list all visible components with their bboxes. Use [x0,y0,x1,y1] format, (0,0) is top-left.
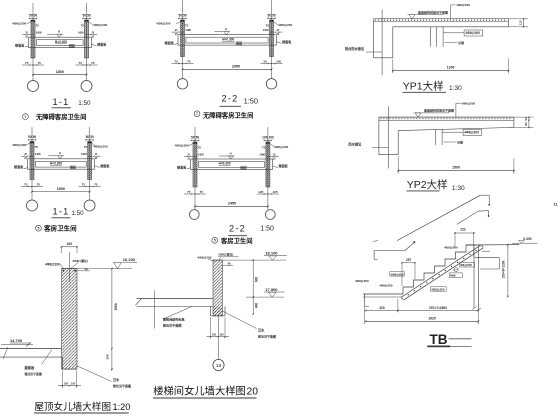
svg-text:1:50: 1:50 [78,100,91,107]
svg-text:75: 75 [185,24,189,28]
svg-text:300: 300 [105,354,109,359]
svg-text:100: 100 [262,136,268,140]
svg-text:75: 75 [25,61,29,65]
svg-text:75: 75 [266,24,270,28]
svg-text:50: 50 [29,14,33,18]
svg-text:75: 75 [175,60,179,64]
svg-text:1200: 1200 [447,66,455,70]
svg-text:150×8=1200: 150×8=1200 [501,260,505,278]
svg-text:50: 50 [264,60,268,64]
svg-text:5: 5 [37,227,39,231]
svg-text:吊筋: 吊筋 [457,139,463,144]
svg-text:50: 50 [87,14,91,18]
svg-text:1900: 1900 [57,187,65,191]
svg-text:2-2: 2-2 [222,94,239,104]
svg-text:50: 50 [268,14,272,18]
svg-text:屋面板: 屋面板 [25,365,36,370]
svg-text:1500: 1500 [114,303,118,311]
svg-text:75: 75 [187,190,191,194]
svg-text:1Φ6: 1Φ6 [35,152,41,156]
svg-text:1Φ6: 1Φ6 [185,28,191,32]
svg-text:H=0.300: H=0.300 [55,40,67,44]
svg-text:50: 50 [28,135,32,139]
svg-text:4Φ8@200: 4Φ8@200 [379,283,393,287]
svg-text:75: 75 [37,183,41,187]
svg-text:100: 100 [276,60,281,64]
svg-text:楼面板: 楼面板 [97,41,107,46]
svg-text:75: 75 [35,24,39,28]
svg-text:4Φ8: 4Φ8 [450,274,456,278]
svg-text:泛水: 泛水 [113,377,120,382]
svg-text:50: 50 [183,14,187,18]
svg-text:1:50: 1:50 [260,226,274,233]
svg-text:4Φ8@200: 4Φ8@200 [156,22,170,26]
svg-text:100: 100 [67,242,73,246]
svg-text:7: 7 [24,115,26,119]
svg-text:H: H [59,151,61,155]
svg-text:泛水: 泛水 [258,328,265,333]
svg-text:做法见平面图: 做法见平面图 [24,371,42,376]
svg-text:楼面板: 楼面板 [165,40,175,45]
svg-text:5: 5 [214,239,216,243]
svg-text:400: 400 [255,303,259,309]
svg-text:75: 75 [187,60,191,64]
svg-text:做法见平面图: 做法见平面图 [257,334,276,339]
svg-text:1Φ6: 1Φ6 [78,31,84,35]
svg-text:1Φ6: 1Φ6 [198,152,204,156]
svg-text:4Φ8@200: 4Φ8@200 [465,31,480,35]
svg-text:1:30: 1:30 [449,85,462,92]
svg-text:50: 50 [83,14,87,18]
svg-text:7: 7 [196,112,198,116]
svg-text:1Φ6: 1Φ6 [81,152,87,156]
svg-text:75: 75 [262,146,266,150]
svg-text:4Φ8@200: 4Φ8@200 [431,287,445,291]
svg-text:H=0.300: H=0.300 [219,162,231,166]
svg-text:屋面结构找坡见平面图: 屋面结构找坡见平面图 [424,108,454,113]
svg-text:1-1: 1-1 [53,207,70,217]
svg-text:18: 18 [216,363,222,369]
svg-text:75: 75 [94,183,98,187]
svg-text:80: 80 [524,122,528,126]
svg-text:1Φ6: 1Φ6 [263,28,269,32]
svg-text:75: 75 [79,61,83,65]
svg-text:4Φ8@200: 4Φ8@200 [391,272,405,276]
svg-text:2-2: 2-2 [229,224,246,234]
svg-text:H=0.300: H=0.300 [50,161,62,165]
svg-text:75: 75 [81,24,85,28]
svg-text:屋顶女儿墙大样图: 屋顶女儿墙大样图 [34,401,111,413]
svg-text:4Φ8@200: 4Φ8@200 [456,3,470,7]
svg-text:楼面板: 楼面板 [15,43,25,48]
svg-text:2950: 2950 [232,65,240,69]
svg-text:楼面板: 楼面板 [14,164,24,169]
svg-text:75: 75 [200,190,204,194]
svg-text:吊筋: 吊筋 [458,40,464,45]
svg-text:楼梯间结构标高: 楼梯间结构标高 [163,316,185,321]
svg-text:75: 75 [91,61,95,65]
svg-text:做法见平面图: 做法见平面图 [112,383,131,388]
svg-text:1:30: 1:30 [452,185,465,192]
svg-text:楼面板: 楼面板 [282,39,292,44]
svg-text:2Φ8(1通长): 2Φ8(1通长) [73,258,88,263]
svg-text:4Φ8@200: 4Φ8@200 [464,131,479,135]
svg-text:2Φ8(1通长): 2Φ8(1通长) [218,252,233,257]
svg-text:1Φ6: 1Φ6 [259,152,265,156]
svg-text:4Φ8@200: 4Φ8@200 [278,23,292,27]
svg-text:1500: 1500 [452,166,460,170]
svg-text:125: 125 [273,190,278,194]
svg-text:TB: TB [430,332,448,347]
svg-text:50: 50 [179,14,183,18]
svg-text:20: 20 [247,386,259,397]
svg-text:50: 50 [191,136,195,140]
svg-text:1800: 1800 [56,70,64,74]
svg-text:125: 125 [258,190,263,194]
svg-text:75: 75 [82,183,86,187]
svg-text:100: 100 [212,333,217,336]
svg-text:4Φ8@200: 4Φ8@200 [175,144,189,148]
svg-text:1-1: 1-1 [53,97,70,107]
svg-text:防水做法: 防水做法 [349,141,363,146]
svg-text:50: 50 [33,135,37,139]
svg-text:18.100: 18.100 [265,251,278,256]
svg-text:楼面板: 楼面板 [279,163,289,168]
svg-text:50: 50 [272,14,276,18]
svg-text:1Φ6: 1Φ6 [36,31,42,35]
svg-text:楼梯间女儿墙大样图: 楼梯间女儿墙大样图 [153,384,246,397]
svg-text:无障碍客房卫生间: 无障碍客房卫生间 [35,112,86,121]
svg-text:320: 320 [379,306,385,310]
svg-text:100: 100 [71,382,76,385]
svg-text:1:20: 1:20 [113,402,131,412]
svg-text:4Φ8@200: 4Φ8@200 [197,255,211,259]
svg-text:1920: 1920 [428,317,436,321]
svg-text:75: 75 [197,146,201,150]
svg-text:4Φ8@200: 4Φ8@200 [93,23,107,27]
svg-text:50: 50 [34,14,38,18]
svg-text:4Φ8@200: 4Φ8@200 [355,279,369,283]
svg-text:17.500: 17.500 [265,287,278,292]
svg-text:1:50: 1:50 [71,210,84,217]
svg-text:50: 50 [90,135,94,139]
svg-text:60: 60 [85,267,88,271]
svg-text:110: 110 [519,20,523,25]
svg-text:14.700: 14.700 [10,338,23,343]
svg-text:100: 100 [269,136,275,140]
svg-text:257×7=1800: 257×7=1800 [429,306,447,310]
svg-text:257: 257 [406,258,412,262]
svg-text:2450: 2450 [228,202,236,206]
svg-text:4Φ8@200: 4Φ8@200 [274,145,288,149]
svg-text:无障碍客房卫生间: 无障碍客房卫生间 [202,111,253,120]
svg-text:50: 50 [86,135,90,139]
svg-text:100: 100 [64,382,69,385]
svg-text:50: 50 [524,117,528,121]
svg-text:YP1大样: YP1大样 [403,80,444,93]
svg-text:Φ8@200: Φ8@200 [460,263,472,267]
svg-text:75: 75 [34,145,38,149]
svg-text:75: 75 [38,61,42,65]
svg-text:4Φ8@200: 4Φ8@200 [45,262,60,266]
svg-text:11: 11 [554,203,558,207]
svg-text:楼面板: 楼面板 [100,163,110,168]
svg-text:楼面板: 楼面板 [177,164,187,169]
svg-text:4Φ8@200: 4Φ8@200 [12,22,26,26]
svg-text:1:50: 1:50 [244,96,258,105]
svg-text:4Φ8@200: 4Φ8@200 [12,143,26,147]
svg-text:16.200: 16.200 [123,257,136,262]
svg-text:222: 222 [460,227,466,231]
svg-text:75: 75 [24,183,28,187]
svg-text:4Φ8@200: 4Φ8@200 [461,101,475,105]
svg-text:做法见平面图: 做法见平面图 [162,323,182,328]
svg-text:客房卫生间: 客房卫生间 [43,223,77,232]
svg-text:客房卫生间: 客房卫生间 [221,236,252,245]
svg-text:600: 600 [255,277,259,283]
svg-text:75: 75 [84,145,88,149]
svg-text:H=0.300: H=0.300 [222,37,234,41]
svg-text:YP2大样: YP2大样 [407,178,448,191]
svg-text:H: H [58,30,60,34]
svg-text:50: 50 [196,136,200,140]
svg-text:阳台防水做法: 阳台防水做法 [345,46,365,51]
svg-text:H: H [230,151,232,155]
svg-text:H: H [225,27,227,31]
svg-text:100: 100 [219,333,224,336]
svg-text:4Φ8@200: 4Φ8@200 [444,245,458,249]
svg-text:60: 60 [228,262,231,266]
svg-text:屋面结构找坡见平面图: 屋面结构找坡见平面图 [418,9,448,14]
